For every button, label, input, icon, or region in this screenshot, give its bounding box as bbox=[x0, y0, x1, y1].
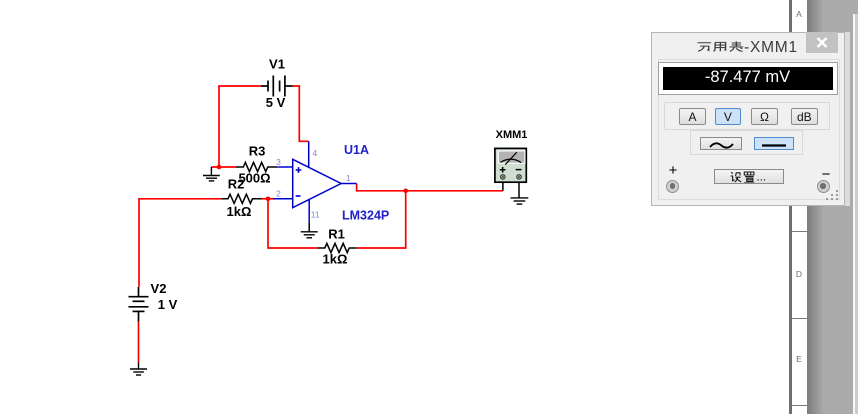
svg-text:5 V: 5 V bbox=[266, 95, 286, 110]
表 bbox=[730, 41, 744, 51]
scrollbar white edge line bbox=[853, 14, 855, 414]
resistor R1 bbox=[318, 243, 357, 252]
mode group box bbox=[664, 102, 830, 130]
万 bbox=[698, 42, 712, 51]
ruler border line bbox=[789, 0, 792, 414]
button Ohm bbox=[751, 108, 778, 126]
svg-text:3: 3 bbox=[276, 157, 281, 167]
ruler tick y231 bbox=[792, 231, 807, 232]
battery V1 bbox=[261, 76, 293, 97]
svg-text:R1: R1 bbox=[328, 227, 345, 242]
ruler letter E bbox=[792, 354, 807, 364]
svg-text:1: 1 bbox=[346, 173, 351, 183]
shadow gradient right of ruler bbox=[807, 0, 825, 414]
ground G4 (multimeter minus) bbox=[511, 198, 529, 204]
instrument panel window bbox=[651, 32, 845, 207]
op-amp plus input glyph bbox=[296, 167, 302, 173]
svg-text:U1A: U1A bbox=[344, 143, 369, 157]
置 bbox=[744, 172, 754, 183]
minus terminal bbox=[817, 180, 830, 193]
ruler tick y405 bbox=[792, 405, 807, 406]
svg-text:-XMM1: -XMM1 bbox=[744, 38, 798, 55]
svg-text:V1: V1 bbox=[269, 57, 285, 72]
svg-text:2: 2 bbox=[276, 189, 281, 199]
resistor R2 bbox=[221, 194, 261, 203]
node junction V1/gnd/R3 bbox=[217, 165, 222, 170]
wire multimeter - stub bbox=[518, 182, 520, 198]
svg-text:1 V: 1 V bbox=[158, 297, 178, 312]
settings button (CJK drawn as strokes) bbox=[714, 169, 785, 185]
wire: R2 left to V2 top bbox=[139, 199, 221, 287]
scrollbar track sliver bbox=[855, 14, 858, 414]
button V (selected) bbox=[715, 108, 742, 126]
resize grip bbox=[822, 188, 840, 202]
wire: R1 left up to pin2 junction bbox=[268, 199, 318, 248]
flat gray gutter bbox=[824, 0, 858, 414]
plus terminal bbox=[666, 180, 679, 193]
ground G3 (V2) bbox=[130, 362, 147, 375]
ruler letter A bbox=[792, 9, 807, 19]
用 bbox=[714, 42, 726, 51]
设 bbox=[730, 172, 741, 182]
ruler tick y318 bbox=[792, 318, 807, 319]
ground G1 (V1/R3 junction) bbox=[203, 167, 220, 181]
ground G2 (op-amp pin11) bbox=[301, 232, 318, 238]
wire pin11 black segment to ground bbox=[308, 222, 310, 232]
multimeter XMM1 icon bbox=[495, 148, 526, 182]
panel title (CJK drawn as strokes for font safety) bbox=[652, 33, 845, 59]
wire pin2 (blue) bbox=[273, 198, 293, 200]
svg-text:11: 11 bbox=[311, 210, 320, 220]
node junction output/feedback bbox=[403, 189, 408, 194]
wire: V2 bottom to ground bbox=[138, 322, 140, 363]
wire: op-amp output to multimeter bbox=[357, 184, 503, 191]
op-amp U1A bbox=[293, 159, 341, 207]
reading display bbox=[659, 63, 837, 94]
svg-text:XMM1: XMM1 bbox=[496, 129, 528, 141]
wire multimeter + stub bbox=[502, 182, 504, 191]
svg-text:4: 4 bbox=[313, 148, 318, 158]
wire pin3 (blue) bbox=[277, 166, 293, 168]
svg-text:...: ... bbox=[756, 171, 766, 183]
wire pin4 (blue) bbox=[308, 141, 310, 167]
node junction R2/R1/pin2 bbox=[266, 197, 271, 202]
svg-text:LM324P: LM324P bbox=[342, 209, 389, 223]
svg-text:V2: V2 bbox=[151, 281, 167, 296]
wire: V1 right to op-amp pin4 corner bbox=[293, 86, 309, 141]
ruler white strip bbox=[792, 0, 807, 414]
button dB bbox=[791, 108, 818, 126]
svg-text:1kΩ: 1kΩ bbox=[323, 252, 348, 267]
signal group box bbox=[690, 130, 803, 156]
resistor R3 bbox=[236, 162, 277, 171]
button AC bbox=[700, 137, 743, 150]
panel drop glow bbox=[845, 32, 850, 207]
button A bbox=[679, 108, 706, 126]
wire: feedback down to R1 right bbox=[357, 191, 406, 248]
close button bbox=[806, 32, 838, 53]
svg-text:R2: R2 bbox=[228, 177, 245, 192]
wire pin11 (blue) bbox=[308, 200, 310, 223]
battery V2 bbox=[129, 287, 149, 322]
svg-text:1kΩ: 1kΩ bbox=[227, 204, 252, 219]
minus label bbox=[818, 166, 834, 183]
wire: V1 left lead net down to ground junction bbox=[219, 86, 261, 167]
ruler letter D bbox=[792, 269, 807, 279]
op-amp minus input glyph bbox=[296, 195, 301, 197]
wire pin1 output (blue) bbox=[341, 183, 357, 185]
wire: junction to pin2 stub bbox=[262, 198, 274, 200]
plus label bbox=[665, 162, 681, 179]
svg-text:R3: R3 bbox=[249, 144, 266, 159]
wire: ground stem to R3 left bbox=[211, 166, 236, 168]
button DC (selected) bbox=[754, 137, 794, 150]
inner faint frame bbox=[658, 59, 840, 201]
